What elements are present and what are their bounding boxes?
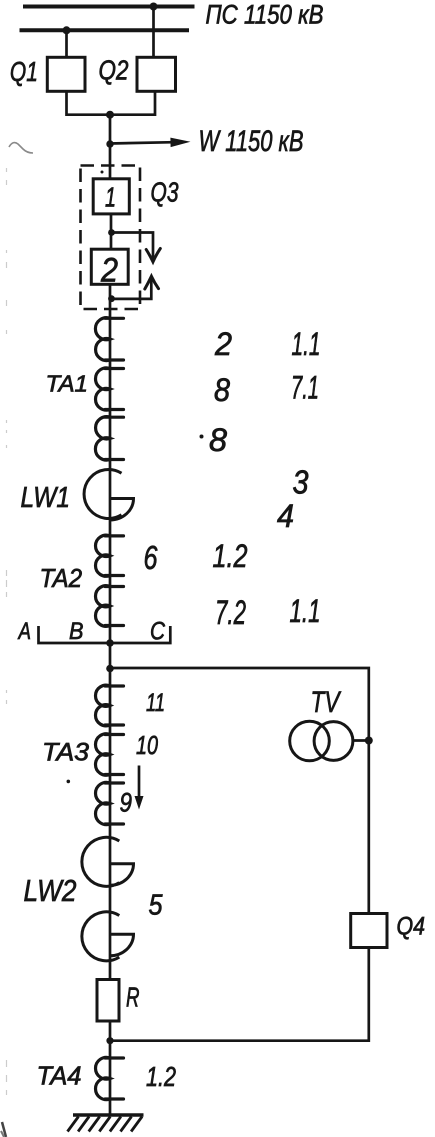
svg-text:ПС 1150 кВ: ПС 1150 кВ [206,0,324,30]
svg-text:TA4: TA4 [37,1061,82,1091]
svg-text:6: 6 [144,539,158,576]
svg-text:8: 8 [209,422,227,458]
svg-text:Q1: Q1 [10,56,38,87]
svg-text:LW1: LW1 [21,482,71,514]
svg-text:1.2: 1.2 [146,1061,176,1092]
svg-text:2: 2 [100,252,118,290]
svg-text:1.1: 1.1 [290,593,321,629]
svg-text:9: 9 [120,788,133,818]
svg-text:3: 3 [293,464,310,501]
svg-text:Q4: Q4 [397,913,426,941]
svg-text:7.2: 7.2 [215,594,246,632]
svg-text:LW2: LW2 [24,873,77,908]
svg-text:Q3: Q3 [151,177,179,208]
svg-text:5: 5 [149,890,164,922]
svg-text:11: 11 [146,689,165,717]
svg-text:7.1: 7.1 [291,370,319,406]
svg-text:TA1: TA1 [46,371,89,397]
svg-text:B: B [69,618,84,645]
svg-text:1.1: 1.1 [292,326,321,362]
svg-text:8: 8 [214,372,230,408]
svg-text:10: 10 [136,730,158,760]
svg-text:A: A [17,618,31,645]
svg-text:2: 2 [214,326,232,362]
svg-text:W 1150 кВ: W 1150 кВ [199,125,304,158]
svg-text:TA3: TA3 [42,739,89,767]
svg-text:TA2: TA2 [40,565,83,593]
svg-text:TV: TV [311,686,342,719]
svg-text:Q2: Q2 [99,55,129,86]
svg-text:C: C [150,618,166,646]
svg-text:1: 1 [105,182,116,213]
svg-text:R: R [126,982,140,1013]
svg-text:1.2: 1.2 [213,538,248,574]
svg-text:4: 4 [277,498,294,534]
